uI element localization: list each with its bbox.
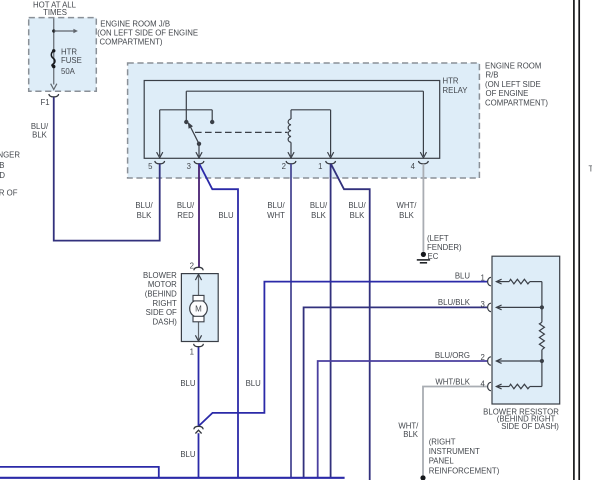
svg-text:BLU: BLU bbox=[246, 379, 262, 388]
svg-text:BLU: BLU bbox=[180, 379, 196, 388]
svg-text:BLK: BLK bbox=[350, 211, 366, 220]
svg-text:COMPARTMENT): COMPARTMENT) bbox=[485, 99, 548, 108]
svg-text:BLU: BLU bbox=[180, 450, 196, 459]
svg-text:BLK: BLK bbox=[399, 211, 415, 220]
svg-text:SIDE OF DASH): SIDE OF DASH) bbox=[501, 422, 559, 431]
svg-text:BLU/ORG: BLU/ORG bbox=[435, 351, 470, 360]
svg-text:BLU/: BLU/ bbox=[267, 201, 285, 210]
svg-text:(RIGHT: (RIGHT bbox=[429, 437, 456, 446]
svg-text:BLU/: BLU/ bbox=[348, 201, 366, 210]
svg-text:FENDER): FENDER) bbox=[427, 243, 462, 252]
svg-text:TIMES: TIMES bbox=[43, 8, 67, 17]
svg-text:B: B bbox=[0, 161, 5, 170]
svg-text:HTR: HTR bbox=[443, 77, 459, 86]
svg-text:(LEFT: (LEFT bbox=[427, 234, 449, 243]
svg-text:FUSE: FUSE bbox=[61, 56, 82, 65]
svg-text:NGER: NGER bbox=[0, 150, 20, 159]
svg-text:WHT/BLK: WHT/BLK bbox=[435, 378, 470, 387]
svg-text:BLOWER: BLOWER bbox=[143, 271, 177, 280]
svg-text:DASH): DASH) bbox=[153, 317, 178, 326]
svg-text:BLU: BLU bbox=[218, 211, 234, 220]
svg-text:BLU/: BLU/ bbox=[177, 201, 195, 210]
svg-text:R OF: R OF bbox=[0, 189, 18, 198]
svg-text:(ON LEFT SIDE OF ENGINE: (ON LEFT SIDE OF ENGINE bbox=[97, 28, 198, 37]
svg-text:RED: RED bbox=[177, 211, 194, 220]
svg-text:INSTRUMENT: INSTRUMENT bbox=[429, 447, 480, 456]
svg-text:3: 3 bbox=[187, 162, 191, 171]
svg-text:T: T bbox=[589, 164, 592, 173]
svg-text:2: 2 bbox=[190, 261, 194, 270]
svg-text:BLK: BLK bbox=[137, 211, 153, 220]
svg-text:RELAY: RELAY bbox=[443, 86, 469, 95]
svg-text:1: 1 bbox=[190, 347, 194, 356]
svg-text:1: 1 bbox=[481, 274, 485, 283]
svg-text:BLK: BLK bbox=[311, 211, 327, 220]
svg-text:BLK: BLK bbox=[403, 430, 419, 439]
svg-text:BLU/BLK: BLU/BLK bbox=[438, 298, 471, 307]
svg-text:50A: 50A bbox=[61, 67, 76, 76]
svg-text:PANEL: PANEL bbox=[429, 457, 455, 466]
svg-text:BLU: BLU bbox=[455, 271, 471, 280]
svg-text:M: M bbox=[195, 305, 202, 314]
svg-text:ENGINE ROOM J/B: ENGINE ROOM J/B bbox=[100, 19, 170, 28]
svg-text:EC: EC bbox=[428, 252, 439, 261]
svg-text:BLU/: BLU/ bbox=[135, 201, 153, 210]
svg-text:BLU/: BLU/ bbox=[31, 122, 49, 131]
svg-text:ENGINE ROOM: ENGINE ROOM bbox=[485, 61, 541, 70]
svg-text:WHT/: WHT/ bbox=[397, 201, 418, 210]
svg-text:4: 4 bbox=[411, 162, 416, 171]
svg-text:BLK: BLK bbox=[32, 131, 48, 140]
svg-text:BLU/: BLU/ bbox=[310, 201, 328, 210]
svg-text:WHT: WHT bbox=[267, 211, 285, 220]
svg-text:COMPARTMENT): COMPARTMENT) bbox=[100, 37, 163, 46]
svg-text:SIDE OF: SIDE OF bbox=[146, 308, 177, 317]
svg-text:3: 3 bbox=[481, 300, 485, 309]
svg-text:REINFORCEMENT): REINFORCEMENT) bbox=[429, 466, 500, 475]
svg-text:(ON LEFT SIDE: (ON LEFT SIDE bbox=[485, 80, 541, 89]
svg-text:F1: F1 bbox=[41, 98, 50, 107]
svg-text:2: 2 bbox=[282, 162, 286, 171]
svg-text:4: 4 bbox=[481, 380, 486, 389]
svg-text:MOTOR: MOTOR bbox=[148, 280, 177, 289]
svg-text:OF ENGINE: OF ENGINE bbox=[486, 89, 529, 98]
svg-text:WHT/: WHT/ bbox=[398, 421, 419, 430]
svg-text:R/B: R/B bbox=[486, 71, 499, 80]
svg-text:D: D bbox=[0, 171, 5, 180]
svg-text:2: 2 bbox=[481, 353, 485, 362]
svg-text:RIGHT: RIGHT bbox=[153, 299, 177, 308]
svg-text:5: 5 bbox=[148, 162, 153, 171]
svg-text:(BEHIND: (BEHIND bbox=[145, 290, 177, 299]
svg-text:1: 1 bbox=[318, 162, 322, 171]
